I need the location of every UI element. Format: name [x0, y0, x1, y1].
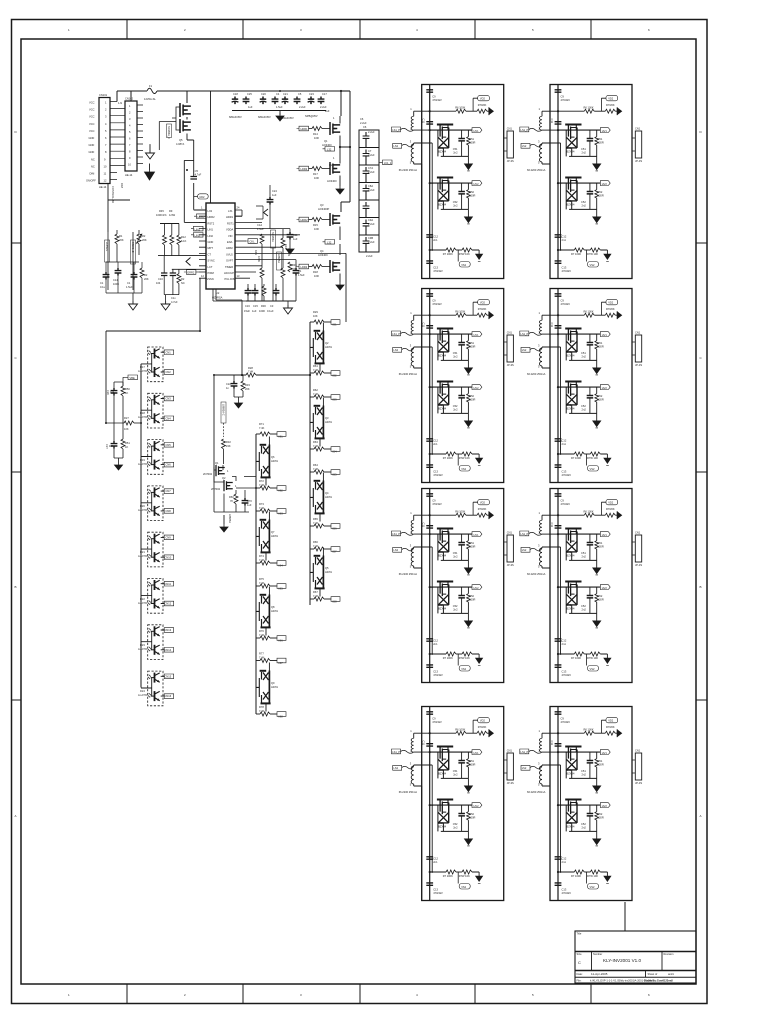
svg-text:R2: R2 [144, 273, 148, 277]
resistor R21 [178, 269, 180, 273]
svg-text:IG3: IG3 [279, 512, 284, 516]
gate net label LDR2 second [297, 264, 309, 269]
svg-text:C9B: C9B [368, 236, 373, 240]
gate resistor R18 [309, 266, 313, 268]
svg-text:A: A [15, 814, 17, 818]
svg-text:CN12: CN12 [165, 602, 172, 606]
bottom rail and ground [214, 467, 249, 512]
net label CKL [246, 239, 258, 244]
svg-text:IG7: IG7 [279, 661, 284, 665]
svg-text:IG5: IG5 [279, 587, 284, 591]
drain wire down and to IC [187, 134, 206, 211]
ground under Q4 [339, 274, 341, 283]
svg-text:DIM: DIM [90, 172, 95, 176]
svg-text:A03%: A03% [271, 685, 279, 689]
svg-text:7.4K: 7.4K [259, 709, 265, 713]
svg-text:A03%: A03% [325, 570, 333, 574]
svg-text:1uF: 1uF [248, 105, 253, 109]
svg-text:Q4: Q4 [320, 249, 324, 253]
svg-text:2.2uF: 2.2uF [368, 188, 375, 192]
capacitor C11 [289, 229, 291, 232]
inverter block 5 [392, 489, 515, 683]
inverter block 2 [520, 85, 643, 279]
resistor R60 and cap C70 below [235, 490, 237, 494]
svg-text:ID2: ID2 [333, 374, 338, 378]
svg-text:Q5: Q5 [325, 566, 329, 570]
net label L32 second [323, 240, 335, 245]
svg-text:Size: Size [577, 952, 583, 956]
transistor Q1 [330, 122, 340, 135]
svg-text:VCC: VCC [89, 122, 95, 126]
svg-text:Q2: Q2 [325, 341, 329, 345]
svg-text:CN8: CN8 [166, 509, 172, 513]
svg-text:CN102: CN102 [125, 97, 134, 101]
svg-text:R64: R64 [313, 463, 318, 467]
svg-text:C1A: C1A [257, 223, 262, 227]
svg-text:R18: R18 [313, 270, 318, 274]
svg-text:AO3400: AO3400 [327, 179, 337, 183]
svg-text:ID8: ID8 [333, 600, 338, 604]
svg-text:Q2: Q2 [222, 476, 226, 480]
svg-text:4.7uF: 4.7uF [195, 173, 202, 177]
capacitor C1B [243, 97, 250, 105]
svg-text:CT: CT [208, 252, 212, 256]
svg-text:IG6: IG6 [279, 639, 284, 643]
wire from top bus into IC top [210, 91, 212, 203]
svg-text:1uF: 1uF [247, 503, 252, 507]
svg-text:ID3: ID3 [333, 398, 338, 402]
svg-text:10K: 10K [124, 427, 129, 431]
svg-text:2.2uF: 2.2uF [368, 170, 375, 174]
svg-text:C14: C14 [113, 278, 118, 282]
CN101 pin numbers and stubs [110, 102, 117, 180]
svg-text:CN2: CN2 [166, 370, 172, 374]
svg-text:D24: D24 [140, 689, 145, 693]
svg-text:Number: Number [593, 952, 602, 956]
transistor pair Q6 [256, 437, 271, 486]
svg-text:IG2: IG2 [279, 489, 284, 493]
svg-text:LX1: LX1 [228, 209, 233, 213]
svg-text:HDR1: HDR1 [226, 215, 234, 219]
svg-text:IG4: IG4 [279, 564, 284, 568]
transistor Q2 2N7002 [224, 480, 233, 491]
svg-text:7.4K: 7.4K [259, 483, 265, 487]
gate net label HDR1 [297, 126, 309, 131]
cap above (C24) [269, 185, 271, 197]
svg-text:CN10: CN10 [165, 555, 172, 559]
svg-text:4.7uF: 4.7uF [171, 300, 178, 304]
labels for groups [138, 350, 172, 698]
svg-text:24K: 24K [226, 444, 231, 448]
pin numbers [201, 206, 240, 279]
ground triangle filled under C11 [289, 240, 291, 246]
ground arrow [287, 301, 289, 305]
svg-text:Q3: Q3 [325, 416, 329, 420]
svg-text:7.4K: 7.4K [313, 544, 319, 548]
svg-text:C6: C6 [360, 117, 364, 121]
svg-text:C1: C1 [100, 281, 104, 285]
svg-text:R66: R66 [313, 540, 318, 544]
resistor R77 with net label IG7 [256, 658, 286, 663]
svg-text:10R: 10R [314, 227, 319, 231]
svg-text:C1: C1 [127, 281, 131, 285]
svg-text:7.4K: 7.4K [248, 370, 254, 374]
resistor R67 with net label ID8 [310, 597, 340, 602]
svg-text:7.4K: 7.4K [259, 558, 265, 562]
resistor R12 [178, 224, 180, 236]
svg-text:R28: R28 [248, 366, 253, 370]
svg-text:C: C [578, 960, 581, 965]
sync pin chevron [186, 258, 191, 266]
svg-text:2.2uF: 2.2uF [366, 254, 373, 258]
Q3 label [318, 203, 330, 211]
resistor R45 [164, 224, 166, 236]
bus from Q1/Q2 node to right and down [341, 147, 350, 212]
opto group 8 [141, 671, 174, 706]
resistor R66 with net label ID7 [310, 547, 340, 552]
svg-text:Q1: Q1 [324, 139, 328, 143]
ladder labels [363, 125, 375, 258]
junction horizontal both ways [214, 374, 246, 376]
svg-text:NPB@35V: NPB@35V [305, 114, 318, 118]
svg-text:10R: 10R [314, 136, 319, 140]
svg-text:C22: C22 [226, 382, 231, 386]
capacitor C2B [272, 97, 279, 105]
join and ground [234, 389, 243, 400]
net label L32 [323, 147, 335, 152]
svg-text:UD2: UD2 [199, 195, 205, 199]
svg-text:ID4: ID4 [333, 450, 338, 454]
cap designator texts [229, 92, 330, 120]
svg-text:File:: File: [577, 979, 582, 983]
gate wiring [172, 107, 180, 130]
svg-text:2.2uF: 2.2uF [368, 153, 375, 157]
svg-text:R63: R63 [313, 440, 318, 444]
resistor R78 with net label IG8 [256, 712, 286, 717]
svg-text:ADIM: ADIM [226, 246, 232, 250]
long wire from IC area to left column [106, 278, 200, 423]
svg-text:7.4K: 7.4K [259, 633, 265, 637]
svg-text:C7A: C7A [368, 166, 373, 170]
svg-text:2N7002: 2N7002 [203, 472, 213, 476]
svg-text:R29: R29 [313, 310, 318, 314]
svg-text:ID5: ID5 [333, 473, 338, 477]
svg-text:L8685A: L8685A [277, 254, 281, 263]
bus [140, 364, 142, 688]
resistor R73 with net label IG3 [256, 509, 286, 514]
svg-text:LIN2: LIN2 [195, 234, 201, 238]
svg-text:L32: L32 [327, 148, 332, 152]
rotated net label dashed lead [221, 402, 226, 423]
svg-text:C1x: C1x [171, 296, 176, 300]
svg-text:GND: GND [89, 136, 95, 140]
svg-text:HDR2: HDR2 [301, 218, 309, 222]
svg-text:2.2uF: 2.2uF [368, 222, 375, 226]
resistor R61 with net label ID2 [310, 371, 340, 376]
svg-text:D21: D21 [140, 550, 145, 554]
svg-text:104: 104 [109, 444, 114, 448]
svg-text:VCC: VCC [89, 115, 95, 119]
svg-text:Sheet of: Sheet of [648, 972, 658, 976]
svg-text:7.4K: 7.4K [259, 426, 265, 430]
svg-text:HDR2: HDR2 [198, 215, 206, 219]
svg-text:R1: R1 [119, 234, 123, 238]
svg-text:VIN: VIN [228, 234, 232, 238]
resistor R30 [263, 284, 265, 286]
svg-text:12V0A-SL: 12V0A-SL [144, 97, 156, 101]
branch to RST pin [184, 160, 206, 222]
svg-text:LIN1: LIN1 [208, 228, 214, 232]
svg-text:R41: R41 [254, 250, 258, 255]
cap C1 at right lower [295, 260, 297, 268]
top zone ticks [127, 20, 591, 40]
wires joining [114, 382, 123, 423]
Q4 label [318, 249, 328, 257]
resistor R26 [121, 386, 125, 396]
caps bottom [103, 272, 110, 280]
svg-text:LCT: LCT [208, 265, 213, 269]
svg-text:104: 104 [110, 390, 115, 394]
svg-text:D23: D23 [140, 643, 145, 647]
svg-text:7.4K: 7.4K [313, 444, 319, 448]
inner pin names [207, 209, 235, 281]
gate net label HDR2 [297, 217, 309, 222]
svg-text:R2: R2 [181, 277, 185, 281]
svg-text:R2: R2 [142, 234, 146, 238]
wiring around transistors [214, 465, 224, 482]
svg-text:CN4: CN4 [166, 416, 172, 420]
svg-text:D18: D18 [140, 411, 145, 415]
svg-text:GND: GND [89, 150, 95, 154]
svg-text:A: A [700, 814, 702, 818]
inverter block 8 [520, 707, 643, 901]
svg-text:C16: C16 [245, 304, 250, 308]
bottom rail and ground [164, 295, 179, 301]
svg-text:and1: and1 [668, 972, 674, 976]
vertical text below CN101 [111, 183, 124, 203]
svg-text:VBE: VBE [130, 376, 135, 380]
resistor R64 with net label ID5 [310, 470, 340, 475]
svg-text:2.2uF: 2.2uF [368, 130, 375, 134]
svg-text:P/DIM+B: P/DIM+B [131, 242, 135, 253]
svg-text:Q3: Q3 [320, 203, 324, 207]
svg-text:SYNC: SYNC [208, 259, 215, 263]
svg-text:7.4K: 7.4K [259, 581, 265, 585]
svg-text:C1: C1 [298, 269, 302, 273]
svg-text:R45: R45 [159, 209, 164, 213]
opto group 3 [141, 440, 174, 475]
ladder capacitors on center line [363, 132, 370, 252]
wire from below-IC down [241, 310, 243, 375]
svg-text:CN15: CN15 [165, 674, 172, 678]
svg-text:D17: D17 [140, 365, 145, 369]
svg-text:A03%: A03% [325, 420, 333, 424]
resistor R65 with net label ID6 [310, 524, 340, 529]
svg-text:PUL DIS: PUL DIS [225, 277, 235, 281]
svg-text:RST1: RST1 [227, 221, 234, 225]
resistor R33 [242, 375, 244, 381]
svg-text:L8685A: L8685A [228, 514, 232, 523]
svg-text:2.2uF: 2.2uF [299, 105, 306, 109]
svg-text:1uF: 1uF [293, 237, 298, 241]
transistor pair Q3 [310, 398, 325, 447]
opto group 1 [141, 347, 174, 382]
svg-text:R67: R67 [313, 590, 318, 594]
svg-text:VSSN: VSSN [207, 277, 214, 281]
vertical net label SOMMA [167, 126, 171, 139]
svg-text:C18: C18 [233, 92, 238, 96]
svg-text:ID7: ID7 [333, 550, 338, 554]
svg-text:C70: C70 [247, 499, 252, 503]
transistor Q5 upper [180, 103, 191, 117]
capacitor C2 [163, 256, 165, 273]
svg-text:ON/OFF: ON/OFF [86, 179, 96, 183]
svg-text:7.4K: 7.4K [259, 506, 265, 510]
svg-text:0.1uF: 0.1uF [267, 309, 274, 313]
svg-text:C21: C21 [283, 92, 288, 96]
svg-text:1-N: 1-N [118, 101, 122, 105]
svg-text:C9A: C9A [368, 218, 373, 222]
svg-text:A-L07%: A-L07% [138, 508, 148, 512]
svg-text:1.5uF: 1.5uF [126, 285, 133, 289]
vertical line with rotated box label SOMMA [271, 230, 276, 248]
left vertical [213, 375, 215, 467]
svg-text:C10: C10 [158, 277, 163, 281]
svg-text:A-L07%: A-L07% [138, 693, 148, 697]
gate resistor R14 [309, 128, 313, 130]
svg-text:0.1u: 0.1u [100, 285, 106, 289]
svg-text:1uF: 1uF [252, 309, 257, 313]
svg-text:HE-14: HE-14 [99, 185, 107, 189]
svg-text:7.4K: 7.4K [259, 656, 265, 660]
svg-text:NC: NC [91, 164, 95, 168]
capacitor C3 [273, 288, 280, 296]
capacitor C4A [308, 97, 315, 105]
svg-text:GND: GND [89, 143, 95, 147]
svg-text:2uF: 2uF [325, 109, 330, 113]
resistor R29 with net label ID1 [310, 320, 340, 325]
top rail [160, 223, 179, 225]
svg-text:R74: R74 [259, 554, 264, 558]
transistor pair Q8 [256, 587, 271, 636]
svg-text:100K: 100K [259, 309, 265, 313]
svg-text:R71: R71 [259, 422, 264, 426]
cap above ladder [360, 117, 367, 125]
svg-text:20K: 20K [119, 238, 124, 242]
svg-text:HDR1: HDR1 [301, 127, 309, 131]
svg-text:B: B [700, 585, 702, 589]
svg-text:CN11: CN11 [165, 582, 172, 586]
svg-text:Q5: Q5 [179, 138, 183, 142]
svg-text:NC: NC [91, 157, 95, 161]
svg-text:HE-14: HE-14 [125, 173, 133, 177]
svg-text:R73: R73 [259, 502, 264, 506]
svg-text:R62: R62 [313, 388, 318, 392]
svg-text:A03%: A03% [271, 459, 279, 463]
resistor R32 vertical [222, 439, 226, 449]
top bus wire [157, 90, 341, 92]
svg-text:1.5uF: 1.5uF [257, 227, 264, 231]
svg-text:C3: C3 [270, 304, 274, 308]
inverter block 7 [392, 707, 515, 901]
wire from CN101 down col [108, 232, 133, 290]
svg-text:GND: GND [208, 240, 214, 244]
svg-text:D22: D22 [140, 597, 145, 601]
resistor R1 [115, 234, 119, 244]
resistor R75 with net label IG5 [256, 584, 286, 589]
svg-text:LDR2: LDR2 [301, 265, 308, 269]
svg-text:AO3400P: AO3400P [318, 207, 330, 211]
svg-text:U2: U2 [216, 291, 220, 295]
transistor Q5 lower [180, 119, 191, 133]
svg-text:104: 104 [156, 281, 161, 285]
cap C22 [233, 375, 235, 381]
svg-text:5.1K: 5.1K [181, 239, 187, 243]
svg-text:D19: D19 [140, 458, 145, 462]
svg-text:SOMMA: SOMMA [271, 232, 275, 242]
lower rail to IC LCT pin [172, 268, 206, 270]
svg-text:Q1: Q1 [215, 461, 219, 465]
transistor pair Q2 [310, 323, 325, 372]
svg-text:A03%: A03% [271, 609, 279, 613]
ground under Q2 [339, 176, 341, 187]
transistor pair Q4 [310, 473, 325, 522]
svg-text:TIMER: TIMER [225, 265, 233, 269]
svg-text:R50: R50 [125, 387, 130, 391]
svg-text:20K: 20K [142, 238, 147, 242]
transistor Q1 2N7002 [216, 465, 225, 476]
svg-text:UVLS: UVLS [226, 252, 233, 256]
svg-text:2.2uF: 2.2uF [320, 105, 327, 109]
svg-text:7.4K: 7.4K [313, 392, 319, 396]
svg-text:B: B [15, 585, 17, 589]
svg-text:7.4K: 7.4K [313, 467, 319, 471]
svg-text:IG1: IG1 [279, 435, 284, 439]
transistor pair Q7 [256, 512, 271, 561]
resistor R71 with net label IG1 [256, 432, 286, 437]
svg-text:Drawn By:Gow8123mdl: Drawn By:Gow8123mdl [644, 979, 673, 983]
svg-text:A-L07%: A-L07% [138, 647, 148, 651]
svg-text:1/4W: 1/4W [169, 213, 176, 217]
svg-text:100K: 100K [257, 256, 261, 262]
transistor Q2 [330, 162, 340, 175]
wires joining caps [106, 262, 142, 293]
svg-text:10K: 10K [313, 314, 318, 318]
svg-text:CN101: CN101 [99, 93, 108, 97]
svg-text:HICCUP: HICCUP [224, 271, 234, 275]
capacitor C3A [282, 97, 289, 105]
svg-text:MPT: MPT [208, 246, 214, 250]
svg-text:R77: R77 [259, 652, 264, 656]
svg-text:R60: R60 [229, 495, 234, 499]
svg-text:CN3: CN3 [166, 397, 172, 401]
trimmer R2 [137, 234, 141, 244]
transistor Q4 [330, 260, 340, 273]
labels [259, 422, 283, 719]
junction dots main [105, 90, 351, 489]
resistor R62 with net label ID3 [310, 395, 340, 400]
gate net label LDR2 [297, 166, 309, 171]
svg-text:1uF: 1uF [272, 193, 277, 197]
svg-text:ID6: ID6 [333, 527, 338, 531]
svg-text:R76: R76 [259, 629, 264, 633]
svg-text:7.4K: 7.4K [313, 521, 319, 525]
svg-text:LV1_1: LV1_1 [384, 161, 392, 165]
svg-text:CN14: CN14 [165, 648, 172, 652]
transistor Q3 [330, 213, 340, 226]
svg-text:LX2: LX2 [208, 209, 213, 213]
svg-text:100K/1%: 100K/1% [156, 213, 167, 217]
